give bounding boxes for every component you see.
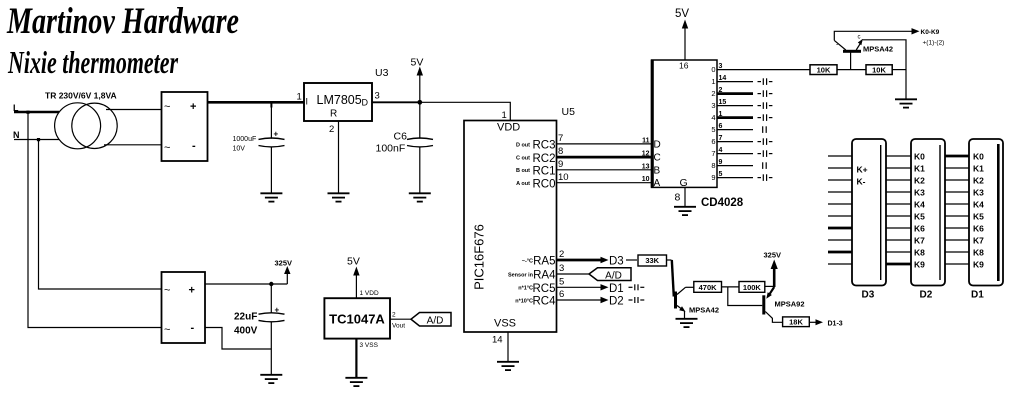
wire 33K to Q2 xyxy=(667,259,672,261)
ground xyxy=(260,375,282,383)
wire 470K to 100K xyxy=(722,286,740,288)
svg-text:C: C xyxy=(654,153,661,164)
svg-text:K0: K0 xyxy=(914,152,925,162)
wires D2 to D1 xyxy=(945,156,969,264)
svg-text:325V: 325V xyxy=(764,251,782,260)
wire collector to ground xyxy=(862,40,906,99)
svg-text:R: R xyxy=(330,109,337,120)
tag A/D xyxy=(589,268,631,281)
svg-text:D1-3: D1-3 xyxy=(828,320,843,327)
ground xyxy=(409,193,431,201)
svg-text:+: + xyxy=(189,285,195,297)
svg-text:470K: 470K xyxy=(699,283,718,292)
resistor 10K second xyxy=(866,65,892,75)
svg-text:~: ~ xyxy=(164,101,170,113)
transistor Q2 MPSA42 xyxy=(674,292,677,309)
svg-text:K+: K+ xyxy=(857,165,868,175)
wire secondary top to bridge xyxy=(106,109,162,111)
svg-text:RC4: RC4 xyxy=(532,296,556,308)
wire 100K to 325V xyxy=(765,285,774,287)
svg-text:9: 9 xyxy=(711,173,715,182)
svg-text:5: 5 xyxy=(711,125,715,134)
junction on N xyxy=(37,138,40,141)
resistor 100K xyxy=(739,282,765,293)
connector D1 xyxy=(969,139,1003,286)
wire D3 to 33K xyxy=(626,259,637,261)
svg-text:RC2: RC2 xyxy=(532,153,555,165)
svg-text:D1: D1 xyxy=(971,290,984,301)
svg-text:5: 5 xyxy=(559,276,564,287)
svg-text:K8: K8 xyxy=(914,248,925,258)
transformer TR secondary xyxy=(72,103,117,148)
wire cap to ground xyxy=(270,322,272,374)
svg-text:4: 4 xyxy=(711,113,715,122)
svg-text:C out: C out xyxy=(516,156,530,162)
tag A/D sensor xyxy=(411,313,451,327)
break symbol xyxy=(629,297,645,303)
svg-text:K4: K4 xyxy=(973,200,984,210)
svg-text:1000uF: 1000uF xyxy=(233,136,257,143)
svg-text:MPSA42: MPSA42 xyxy=(689,306,719,315)
svg-text:c: c xyxy=(858,35,861,41)
svg-text:K0-K9: K0-K9 xyxy=(921,29,940,36)
svg-text:RC3: RC3 xyxy=(532,140,555,152)
regulator U3 LM7805 xyxy=(304,83,372,121)
svg-text:U5: U5 xyxy=(562,106,576,118)
svg-text:16: 16 xyxy=(679,61,689,71)
svg-text:12: 12 xyxy=(642,151,650,158)
transistor Q3 MPSA92 xyxy=(770,287,775,294)
wire cap to ground xyxy=(270,147,272,193)
svg-text:K5: K5 xyxy=(914,212,925,222)
ground xyxy=(345,378,367,386)
svg-text:1 VDD: 1 VDD xyxy=(360,290,379,297)
ground xyxy=(497,362,519,370)
transistor Q1 MPSA42 xyxy=(843,50,861,53)
svg-text:D3: D3 xyxy=(862,290,875,301)
wire emitter to ground xyxy=(684,311,686,318)
svg-text:10K: 10K xyxy=(872,65,886,74)
svg-text:10K: 10K xyxy=(817,65,831,74)
capacitor 1000uF xyxy=(259,138,285,139)
resistor 10K first xyxy=(810,65,837,75)
svg-text:TR 230V/6V 1,8VA: TR 230V/6V 1,8VA xyxy=(45,91,117,101)
svg-text:I: I xyxy=(306,97,309,107)
junction on L xyxy=(26,111,29,114)
svg-text:+(1)-(2): +(1)-(2) xyxy=(923,39,945,46)
svg-text:RC0: RC0 xyxy=(532,178,555,190)
svg-text:0: 0 xyxy=(711,65,715,74)
rectifier bridge B1 xyxy=(162,92,208,161)
transformer TR primary xyxy=(55,103,101,149)
svg-text:6: 6 xyxy=(559,289,564,300)
svg-text:18K: 18K xyxy=(789,318,803,327)
svg-text:5V: 5V xyxy=(411,57,424,69)
svg-text:K5: K5 xyxy=(973,212,984,222)
wire bridge2+ xyxy=(205,283,287,285)
svg-text:3: 3 xyxy=(559,263,564,274)
svg-text:MPSA92: MPSA92 xyxy=(775,300,805,309)
svg-text:K6: K6 xyxy=(973,224,984,234)
svg-text:A/D: A/D xyxy=(605,270,622,281)
resistor 18K xyxy=(783,317,810,327)
svg-text:K0: K0 xyxy=(973,152,984,162)
svg-text:9: 9 xyxy=(558,159,563,170)
connector D3 xyxy=(852,139,886,286)
ground xyxy=(328,193,350,201)
svg-text:K7: K7 xyxy=(914,236,925,246)
wire N xyxy=(14,139,59,141)
ground xyxy=(895,99,917,107)
connector D3 stubs xyxy=(828,156,852,264)
resistor 470K xyxy=(694,282,722,293)
svg-text:n*10°C: n*10°C xyxy=(515,298,533,304)
svg-text:+: + xyxy=(190,101,196,113)
svg-text:6: 6 xyxy=(711,137,715,146)
node 325V junction xyxy=(269,282,273,286)
wire L xyxy=(14,111,59,114)
svg-text:2: 2 xyxy=(559,249,564,260)
capacitor 22uF xyxy=(270,284,272,314)
svg-text:TC1047A: TC1047A xyxy=(329,312,385,327)
IC U5 PIC16F676 xyxy=(464,121,557,333)
wire VSS to ground xyxy=(507,332,509,361)
svg-text:D: D xyxy=(362,98,369,108)
svg-text:2: 2 xyxy=(392,312,396,319)
svg-text:K8: K8 xyxy=(973,248,984,258)
svg-text:RA4: RA4 xyxy=(533,270,556,282)
svg-text:7: 7 xyxy=(558,133,563,144)
svg-text:K4: K4 xyxy=(914,200,925,210)
svg-text:1: 1 xyxy=(297,92,302,103)
svg-text:D: D xyxy=(654,139,661,150)
svg-text:A out: A out xyxy=(516,181,530,187)
connector D2 xyxy=(911,139,945,286)
wire pin2 to ground xyxy=(338,121,340,193)
svg-text:5V: 5V xyxy=(675,8,689,20)
wire bridge2- xyxy=(205,328,271,350)
svg-text:VDD: VDD xyxy=(497,122,520,134)
sensor U TC1047A xyxy=(324,298,390,338)
capacitor C6 xyxy=(419,102,421,138)
svg-text:14: 14 xyxy=(492,335,503,346)
svg-text:D3: D3 xyxy=(609,256,624,268)
wire between 10K xyxy=(837,69,866,71)
svg-text:B out: B out xyxy=(516,168,530,174)
wire 10K to node xyxy=(892,69,906,71)
svg-text:K1: K1 xyxy=(973,164,984,174)
svg-text:3 VSS: 3 VSS xyxy=(360,342,379,349)
svg-text:PIC16F676: PIC16F676 xyxy=(472,224,487,290)
svg-text:U3: U3 xyxy=(375,67,389,79)
svg-text:400V: 400V xyxy=(234,326,258,337)
svg-text:C6: C6 xyxy=(394,131,408,143)
transistor Q1 base wire xyxy=(850,53,852,70)
svg-text:LM7805: LM7805 xyxy=(317,93,362,107)
svg-text:1: 1 xyxy=(711,77,715,86)
svg-text:3: 3 xyxy=(711,101,715,110)
svg-text:5V: 5V xyxy=(347,256,360,268)
svg-text:RC1: RC1 xyxy=(532,166,555,178)
svg-text:2: 2 xyxy=(711,89,715,98)
svg-text:13: 13 xyxy=(642,163,650,170)
svg-text:RA5: RA5 xyxy=(533,256,555,268)
svg-text:2: 2 xyxy=(329,124,334,135)
svg-text:11: 11 xyxy=(642,137,650,144)
svg-text:A/D: A/D xyxy=(427,316,444,327)
svg-text:7: 7 xyxy=(711,149,715,158)
svg-text:22uF: 22uF xyxy=(234,312,257,323)
wire regulator output xyxy=(372,101,420,103)
ground xyxy=(676,319,698,327)
svg-text:D2: D2 xyxy=(920,290,933,301)
wire N drop xyxy=(39,140,162,290)
svg-text:D1: D1 xyxy=(609,283,624,295)
svg-text:K6: K6 xyxy=(914,224,925,234)
svg-text:+: + xyxy=(275,306,280,315)
wires D3 to D2 xyxy=(886,156,911,264)
svg-text:33K: 33K xyxy=(645,256,659,265)
svg-text:8: 8 xyxy=(711,161,715,170)
svg-text:~: ~ xyxy=(164,142,170,154)
break symbol xyxy=(629,284,645,290)
resistor 33K xyxy=(638,255,667,266)
svg-text:1: 1 xyxy=(502,110,507,121)
svg-text:D2: D2 xyxy=(609,296,624,308)
IC CD4028 xyxy=(652,60,718,187)
wire junction to Q3 base xyxy=(728,287,763,306)
junction C5 node xyxy=(270,102,272,107)
svg-text:-: - xyxy=(192,140,196,152)
svg-text:8: 8 xyxy=(675,192,681,204)
svg-text:K2: K2 xyxy=(914,176,925,186)
wire secondary bottom to bridge xyxy=(104,144,162,146)
node 5V junction xyxy=(417,100,422,105)
svg-text:K2: K2 xyxy=(973,176,984,186)
svg-text:G: G xyxy=(680,177,688,189)
wire emitter to K line xyxy=(834,31,913,40)
svg-text:~-°C: ~-°C xyxy=(522,258,533,264)
ground xyxy=(260,193,282,201)
svg-text:Sensor in: Sensor in xyxy=(508,272,534,278)
wire collector to 18K xyxy=(765,312,782,323)
wire 5V to VDD xyxy=(420,102,511,120)
svg-text:10V: 10V xyxy=(233,146,246,153)
svg-text:10: 10 xyxy=(642,176,650,183)
svg-text:D out: D out xyxy=(516,142,530,148)
svg-text:+: + xyxy=(274,130,279,139)
svg-text:MPSA42: MPSA42 xyxy=(863,44,893,53)
wire 18K out xyxy=(809,321,816,323)
svg-text:-: - xyxy=(191,322,195,334)
svg-text:100nF: 100nF xyxy=(376,143,406,155)
svg-text:Martinov Hardware: Martinov Hardware xyxy=(6,1,239,42)
svg-text:Vout: Vout xyxy=(392,323,405,330)
svg-text:K9: K9 xyxy=(914,260,925,270)
svg-text:K3: K3 xyxy=(914,188,925,198)
svg-text:325V: 325V xyxy=(275,258,293,267)
svg-text:n*1°C: n*1°C xyxy=(518,286,533,292)
wire L drop xyxy=(28,112,162,328)
svg-text:K9: K9 xyxy=(973,260,984,270)
svg-text:K-: K- xyxy=(857,177,866,187)
svg-text:~: ~ xyxy=(164,285,170,297)
capacitor 1000uF wire xyxy=(270,102,272,138)
wire G to ground xyxy=(684,187,686,206)
svg-text:3: 3 xyxy=(375,91,380,102)
svg-text:K1: K1 xyxy=(914,164,925,174)
svg-text:100K: 100K xyxy=(743,283,762,292)
rectifier bridge B2 xyxy=(162,272,206,343)
svg-text:8: 8 xyxy=(558,146,563,157)
svg-text:VSS: VSS xyxy=(494,318,516,330)
ground xyxy=(674,207,696,215)
svg-text:10: 10 xyxy=(558,172,569,183)
wire bridge+ to regulator xyxy=(208,101,305,104)
svg-text:K3: K3 xyxy=(973,188,984,198)
svg-text:B: B xyxy=(654,165,661,176)
svg-text:~: ~ xyxy=(164,324,170,336)
svg-text:Nixie thermometer: Nixie thermometer xyxy=(7,44,178,80)
svg-text:N: N xyxy=(13,130,20,140)
svg-text:RC5: RC5 xyxy=(532,283,555,295)
svg-text:CD4028: CD4028 xyxy=(701,197,744,209)
svg-text:K7: K7 xyxy=(973,236,984,246)
